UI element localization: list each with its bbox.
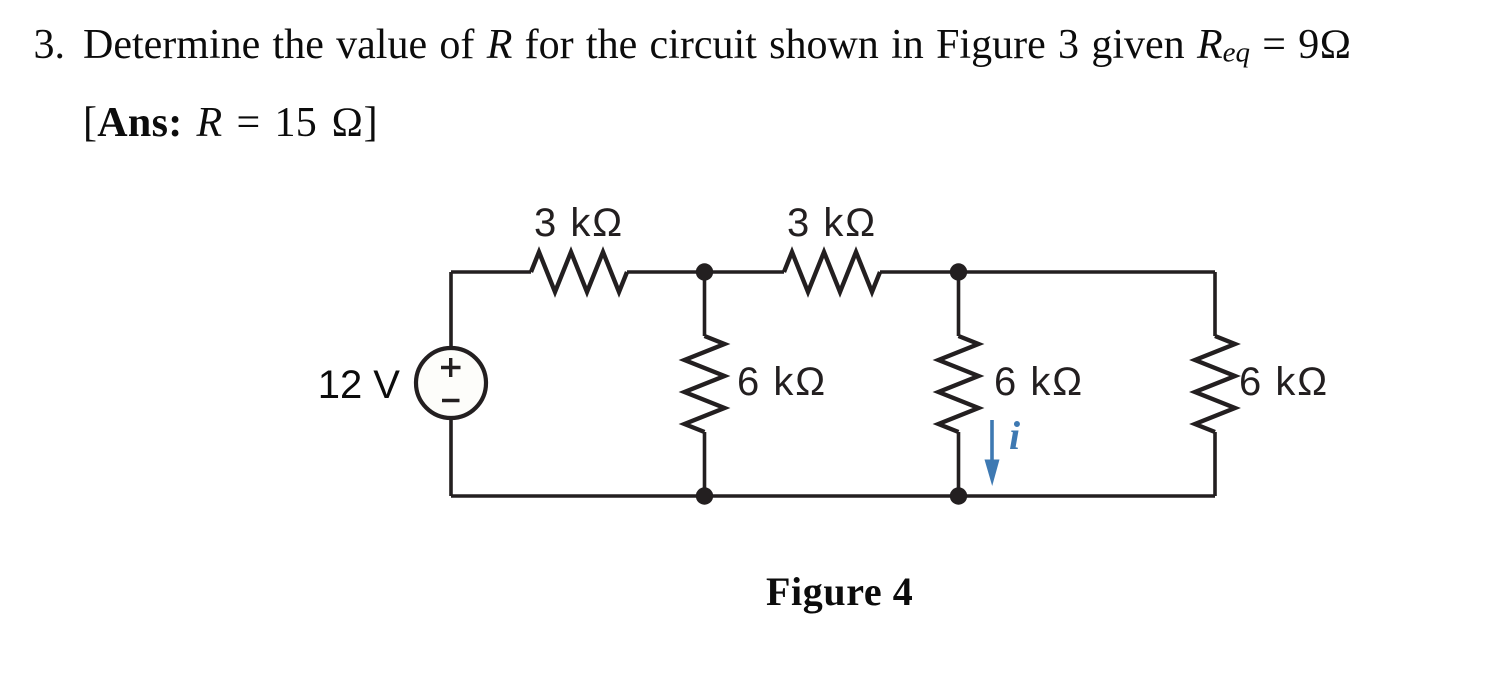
node A (top-left junction) (696, 263, 713, 280)
wire: left rail lower (449, 420, 453, 496)
svg-text:6 kΩ: 6 kΩ (1239, 360, 1329, 404)
svg-text:i: i (1009, 413, 1020, 458)
minus sign (442, 399, 460, 402)
svg-text:3 kΩ: 3 kΩ (534, 201, 624, 245)
wire: middle branch 2 upper (957, 272, 961, 336)
svg-text:6 kΩ: 6 kΩ (994, 360, 1084, 404)
figure caption (766, 572, 913, 612)
resistor R5 6k (right vertical zigzag) (1195, 336, 1235, 432)
wire: top rail middle segment (627, 270, 784, 274)
svg-text:3 kΩ: 3 kΩ (787, 201, 877, 245)
node D (bottom-right junction) (950, 487, 967, 504)
svg-text:12 V: 12 V (318, 363, 401, 407)
wire: middle branch 1 lower (703, 432, 707, 496)
plus sign (441, 358, 461, 377)
resistor R2 3k (top-right zigzag) (784, 252, 880, 292)
wire: left rail upper (449, 272, 453, 346)
node C (bottom-left junction) (696, 487, 713, 504)
problem statement line 1 (34, 24, 1352, 68)
wire: top rail left segment (451, 270, 531, 274)
node B (top-right junction) (950, 263, 967, 280)
wire: top rail right segment (880, 270, 1215, 274)
resistor R3 6k (left vertical zigzag) (685, 336, 725, 432)
svg-text:6 kΩ: 6 kΩ (737, 360, 827, 404)
wire: right rail lower (1213, 432, 1217, 496)
voltage source V1 12V (416, 348, 486, 418)
resistor R1 3k (top-left zigzag) (531, 252, 627, 292)
current arrow i (985, 420, 1000, 486)
wire: right rail upper (1213, 272, 1217, 336)
resistor R4 6k (middle vertical zigzag) (939, 336, 979, 432)
wire: middle branch 2 lower (957, 432, 961, 496)
wire: bottom rail (451, 494, 1215, 498)
wire: middle branch 1 upper (703, 272, 707, 336)
answer line (83, 102, 378, 144)
